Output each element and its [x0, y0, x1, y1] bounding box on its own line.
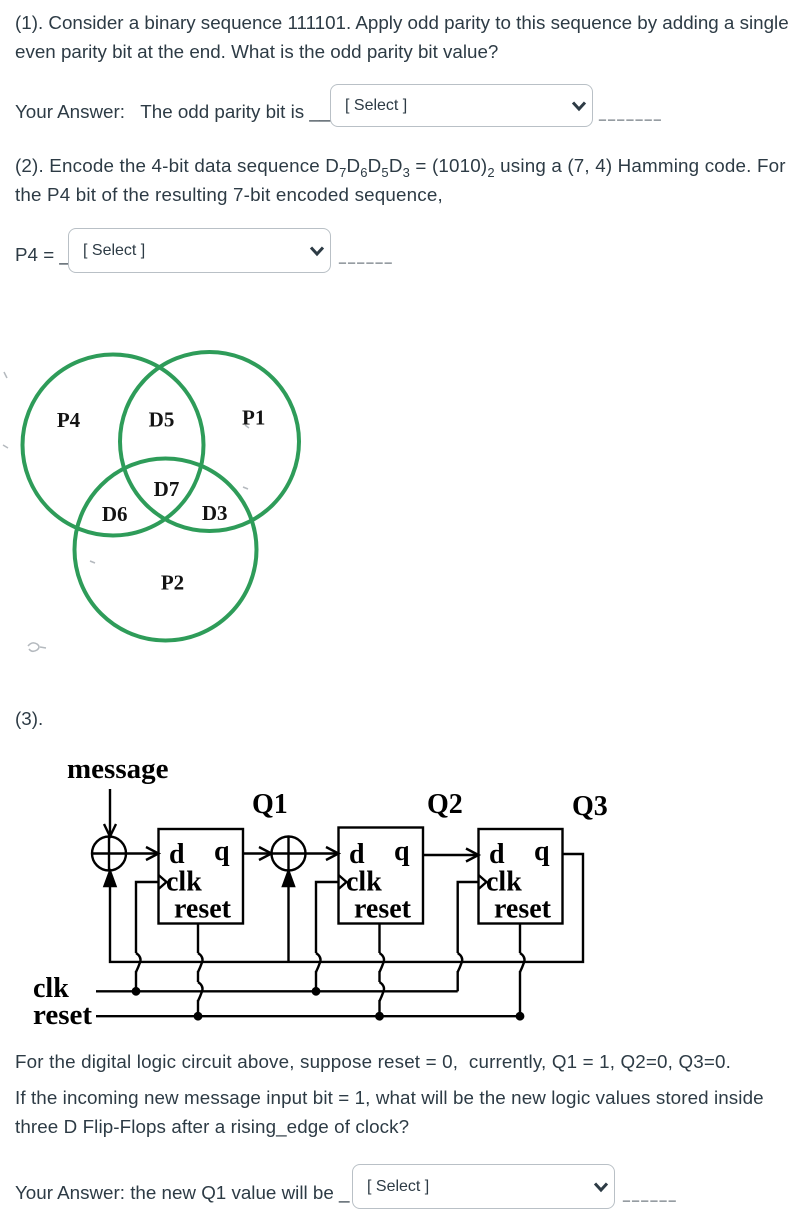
junction dot reset U1	[194, 1012, 203, 1021]
venn circle P2	[75, 459, 257, 641]
venn circle P4	[23, 355, 204, 536]
svg-text:reset: reset	[354, 894, 412, 925]
paragraph below circuit	[15, 1047, 731, 1076]
answer 3 row	[15, 1178, 349, 1207]
wire U1 q to X2	[243, 847, 272, 860]
svg-text:message: message	[67, 753, 169, 785]
xor gate X2	[272, 837, 306, 871]
dropdown select 3	[352, 1164, 615, 1209]
svg-text:reset: reset	[174, 894, 232, 925]
clock triangle U1	[159, 875, 167, 889]
svg-text:P4: P4	[57, 408, 81, 432]
flip-flop U2 box	[339, 828, 424, 924]
wire X2 to U2 d	[306, 847, 339, 860]
svg-text:q: q	[394, 836, 410, 867]
svg-text:d: d	[489, 839, 505, 870]
junction dot clk U2	[312, 987, 321, 996]
svg-text:d: d	[349, 839, 365, 870]
question 2 text	[15, 151, 786, 209]
svg-text:D3: D3	[202, 501, 228, 525]
junction dot clk U1	[132, 987, 141, 996]
svg-text:D5: D5	[149, 408, 175, 432]
svg-text:q: q	[534, 836, 550, 867]
question 3 label	[15, 704, 43, 733]
svg-text:Q2: Q2	[427, 789, 463, 820]
reset bus line	[96, 1015, 520, 1017]
svg-text:reset: reset	[33, 999, 92, 1031]
wire feedback branch into X2	[283, 871, 294, 962]
venn circle P1	[120, 352, 299, 531]
flip-flop U1 box	[159, 829, 244, 924]
svg-text:D7: D7	[154, 477, 180, 501]
svg-text:d: d	[169, 839, 185, 870]
wire U2 q to U3 d	[423, 849, 479, 862]
svg-text:P2: P2	[161, 571, 184, 595]
junction dot reset U3	[516, 1012, 525, 1021]
svg-text:Q1: Q1	[252, 789, 288, 820]
clock triangle U3	[479, 875, 487, 889]
arrowhead feedback into X1	[105, 871, 116, 886]
clk bus line	[96, 990, 458, 992]
wire U3 q out to feedback	[110, 854, 583, 962]
dropdown select 1	[330, 84, 593, 127]
clock triangle U2	[339, 875, 347, 889]
dropdown select 2	[68, 228, 331, 273]
wire message into X1	[104, 789, 116, 837]
wire U3 reset down	[520, 924, 525, 1017]
wire X1 to U1 d	[126, 847, 159, 860]
venn diagram figure	[0, 330, 330, 670]
svg-text:D6: D6	[102, 502, 128, 526]
question 1 text	[15, 8, 789, 66]
wire U2 clk to clk line	[316, 882, 339, 991]
wire U2 reset down	[380, 924, 385, 1017]
xor gate X1	[92, 837, 126, 871]
answer 2 row	[15, 240, 70, 269]
svg-text:q: q	[214, 836, 230, 867]
wire U1 reset down	[198, 924, 203, 1017]
wire U1 clk to clk line	[136, 882, 159, 991]
junction dot reset U2	[375, 1012, 384, 1021]
circuit schematic for question 3	[0, 740, 640, 1040]
svg-text:Q3: Q3	[572, 791, 608, 822]
answer 1 row	[15, 97, 330, 126]
flip-flop U3 box	[479, 829, 563, 924]
svg-text:reset: reset	[494, 894, 552, 925]
wire U3 clk to clk line end	[458, 882, 479, 991]
